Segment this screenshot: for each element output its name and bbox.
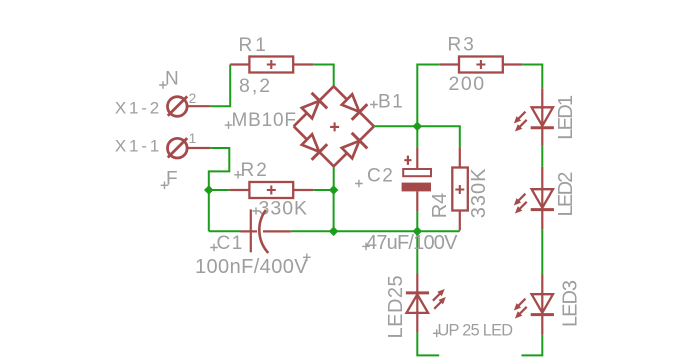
svg-text:R2: R2 bbox=[241, 160, 269, 181]
wire edge left-top bbox=[294, 86, 334, 126]
wire node A to R2 left bbox=[209, 189, 230, 191]
svg-text:100nF/400V: 100nF/400V bbox=[195, 256, 308, 278]
terminal X1-1 bbox=[168, 138, 211, 158]
node E junction bbox=[413, 122, 423, 132]
LED2 bbox=[514, 167, 554, 230]
svg-text:X1-1: X1-1 bbox=[115, 137, 162, 156]
svg-text:R4: R4 bbox=[429, 193, 451, 219]
svg-text:X1-2: X1-2 bbox=[115, 99, 162, 118]
origin cross MB10F bbox=[225, 121, 233, 129]
bridge rectifier B1 bbox=[294, 86, 374, 166]
origin cross C2 bbox=[355, 180, 363, 188]
wire bridge bottom to node B bbox=[333, 166, 335, 190]
origin cross 47uF/100V bbox=[362, 243, 370, 251]
resistor R2 bbox=[230, 182, 313, 198]
wire X1-1 to node A bbox=[209, 148, 230, 190]
wire LED3 bottom stub bbox=[522, 335, 543, 356]
origin cross UP 25 LED bbox=[433, 330, 441, 338]
LED3 bbox=[514, 275, 554, 335]
origin cross C1 bbox=[210, 244, 218, 252]
wire C2 bottom to node D bbox=[416, 211, 418, 231]
wire node D to R4 bottom bbox=[417, 230, 460, 232]
wire bridge right to node E bbox=[374, 125, 417, 127]
svg-text:R3: R3 bbox=[448, 35, 476, 56]
resistor R4 bbox=[452, 147, 468, 230]
capacitor C2 bbox=[402, 147, 431, 211]
diode bottom-right bbox=[342, 141, 359, 158]
terminal X1-2 bbox=[168, 96, 211, 116]
wire node A down to C1 rail bbox=[208, 190, 210, 231]
svg-text:N: N bbox=[165, 69, 179, 90]
diode bottom-left bbox=[302, 134, 319, 151]
wire R2 right to node B bbox=[313, 189, 333, 191]
resistor R3 bbox=[440, 57, 523, 73]
svg-text:LED25: LED25 bbox=[385, 275, 407, 339]
wire bottom rail node C to node D bbox=[334, 230, 418, 232]
svg-text:B1: B1 bbox=[378, 92, 404, 113]
origin cross N bbox=[159, 81, 167, 89]
origin cross 330K bbox=[252, 207, 259, 214]
svg-text:F: F bbox=[166, 169, 178, 190]
wire node E down to C2 bbox=[416, 126, 418, 147]
node D junction bbox=[413, 227, 423, 237]
wire edge left-bottom bbox=[294, 126, 334, 166]
svg-text:LED2: LED2 bbox=[555, 172, 577, 217]
wire node D down to LED25 bbox=[416, 231, 418, 273]
wire R1 right to bridge top bbox=[313, 65, 334, 87]
svg-text:R1: R1 bbox=[239, 35, 269, 56]
wire node B to node C bbox=[333, 190, 335, 231]
origin cross B1 label bbox=[370, 101, 378, 109]
wire node E up to R3 left bbox=[417, 65, 440, 127]
wire LED2 to LED3 bbox=[541, 229, 543, 274]
wire X1-2 to R1 left bbox=[210, 65, 230, 107]
capacitor C1 bbox=[240, 209, 290, 253]
svg-text:330K: 330K bbox=[468, 168, 490, 219]
wire edge bottom-right bbox=[334, 126, 374, 166]
origin cross 100nF/400V bbox=[303, 254, 311, 262]
origin cross R2 bbox=[234, 171, 242, 179]
wire edge top-right bbox=[334, 86, 374, 126]
svg-text:1: 1 bbox=[189, 131, 197, 146]
wire C1 right to node C bbox=[291, 230, 334, 232]
svg-text:2: 2 bbox=[189, 91, 197, 106]
LED1 bbox=[514, 88, 554, 145]
svg-text:LED1: LED1 bbox=[555, 95, 577, 140]
wire R3 right to LED1 top bbox=[522, 65, 542, 89]
node B junction bbox=[329, 185, 339, 195]
wire LED25 bottom stub bbox=[417, 332, 439, 355]
svg-text:330K: 330K bbox=[259, 198, 309, 220]
wire C1 left bbox=[209, 230, 241, 232]
svg-text:47uF/100V: 47uF/100V bbox=[366, 232, 458, 254]
node C junction bbox=[329, 227, 339, 237]
wire LED1 to LED2 bbox=[541, 146, 543, 167]
svg-text:8,2: 8,2 bbox=[239, 75, 272, 97]
origin cross B1 bbox=[330, 122, 339, 131]
diode top-left bbox=[302, 101, 319, 118]
LED25 bbox=[406, 274, 446, 333]
svg-text:LED3: LED3 bbox=[560, 280, 582, 327]
svg-text:UP 25 LED: UP 25 LED bbox=[438, 322, 513, 340]
wire node E to R4 top bbox=[417, 126, 460, 147]
svg-text:C2: C2 bbox=[367, 166, 394, 187]
node A junction bbox=[204, 185, 214, 195]
resistor R1 bbox=[230, 57, 313, 73]
svg-text:MB10F: MB10F bbox=[232, 110, 297, 131]
origin cross F bbox=[161, 182, 169, 190]
svg-text:200: 200 bbox=[449, 73, 486, 95]
diode top-right bbox=[342, 94, 359, 111]
svg-text:C1: C1 bbox=[217, 233, 244, 254]
